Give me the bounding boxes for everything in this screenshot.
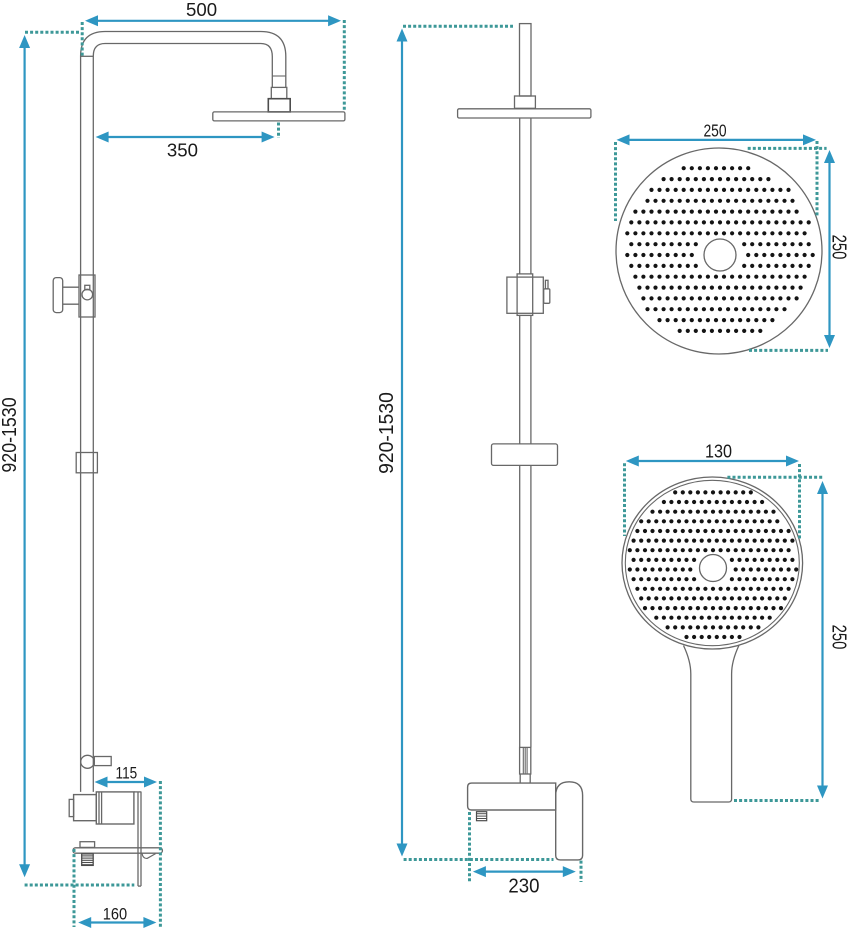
svg-text:350: 350 [167,140,198,160]
svg-text:250: 250 [827,235,848,260]
svg-text:250: 250 [703,120,726,140]
svg-text:920-1530: 920-1530 [376,392,398,474]
svg-text:920-1530: 920-1530 [0,397,21,472]
svg-text:130: 130 [705,442,732,462]
svg-text:115: 115 [116,764,138,782]
svg-text:500: 500 [186,0,217,20]
svg-text:230: 230 [508,875,539,897]
svg-text:250: 250 [827,625,848,650]
svg-text:160: 160 [103,904,127,923]
